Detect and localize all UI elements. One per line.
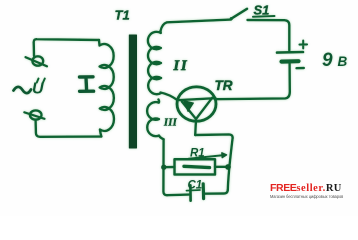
label - <box>297 67 304 70</box>
terminal bottom (~U) <box>24 110 44 119</box>
svg-text:T1: T1 <box>115 8 130 23</box>
terminal top (~U) <box>26 56 48 66</box>
svg-text:II: II <box>173 58 189 74</box>
wire: right rail down <box>228 138 233 190</box>
wire: capacitor to left rail <box>167 193 189 196</box>
svg-text:TR: TR <box>215 78 233 93</box>
battery B1 plate - (short thick) <box>282 59 299 64</box>
label 9B <box>322 50 348 71</box>
switch S1 lever <box>231 9 247 19</box>
transistor collector arm <box>196 98 212 119</box>
svg-text:S1: S1 <box>254 3 270 18</box>
wire: R1 right connection <box>215 166 229 168</box>
transistor base lead down <box>194 120 197 135</box>
label R1 (underlined with arrow) <box>189 148 227 160</box>
wire: AC source top wire to winding I <box>34 39 99 56</box>
FREEseller.RU logo <box>270 182 356 194</box>
wire: AC source bottom wire <box>36 120 101 137</box>
transformer core T1 <box>129 35 136 148</box>
battery B1 plate + (long) <box>277 51 303 54</box>
junction dot left <box>161 165 166 170</box>
winding II (secondary) <box>148 31 161 94</box>
svg-text:В: В <box>338 54 348 69</box>
switch S1 contact dot <box>230 17 233 20</box>
winding I (primary) <box>99 40 114 137</box>
svg-text:III: III <box>163 118 178 129</box>
label I <box>80 77 94 92</box>
label C1 (underlined) <box>187 180 203 192</box>
resistor R1 inner bar <box>184 166 210 167</box>
wire: battery minus down to emitter rail <box>216 64 290 100</box>
wire: base lead to right rail <box>195 134 232 138</box>
transistor TR body circle <box>177 87 216 121</box>
junction dot right <box>225 164 231 170</box>
capacitor C1 left plate <box>189 185 192 200</box>
label + <box>300 41 308 49</box>
winding III (feedback) <box>147 100 163 140</box>
transistor emitter arrow <box>184 101 194 112</box>
transistor emitter arm <box>182 102 196 120</box>
transistor internal through line <box>178 98 216 100</box>
label S1 (underlined) <box>253 3 275 18</box>
diaeresis ticks over U <box>37 79 45 83</box>
wire: winding II bottom to transistor <box>161 93 178 101</box>
wire: left rail up to winding III <box>163 140 167 196</box>
wire: winding II top to switch <box>161 20 232 31</box>
label ~U <box>0 0 1 1</box>
svg-text:9: 9 <box>322 50 333 71</box>
resistor R1 box <box>175 159 216 174</box>
wire: switch to battery <box>248 20 290 51</box>
wire: right rail bottom corner to capacitor <box>205 190 228 194</box>
wire: R1 left connection <box>164 166 175 169</box>
capacitor C1 right plate <box>202 184 206 199</box>
logo caption <box>270 194 343 199</box>
